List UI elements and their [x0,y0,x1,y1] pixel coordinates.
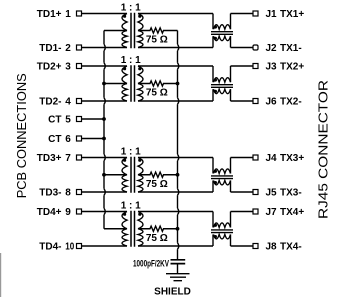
wire choke to J8 [231,245,254,247]
T3 secondary winding [138,158,143,193]
resistor R2 75 ohm [138,81,178,99]
L2 right vertical bottom [230,89,232,101]
svg-text:TD4+: TD4+ [37,207,62,218]
scan artifact line [0,253,1,297]
transformer T4 1:1 [121,201,143,247]
T2 secondary phase dot [138,67,141,70]
T1 secondary phase dot [138,15,141,18]
svg-text:TD1+: TD1+ [37,9,62,20]
L3 top winding [214,169,231,174]
J5 terminal square [253,190,258,195]
C1 plates [171,260,186,264]
svg-text:6: 6 [65,134,71,145]
svg-text:CT: CT [48,115,61,126]
resistor R1 75 ohm [138,28,178,46]
svg-text:TD2+: TD2+ [37,62,62,73]
svg-text:TX4+: TX4+ [280,207,304,218]
capacitor C1 1000pF/2KV [133,259,185,269]
pin 3 terminal square [77,64,82,69]
wire pin 5 [82,118,105,120]
L4 right vertical top [230,212,232,228]
L2 left vertical bottom [212,89,214,101]
svg-text:J3: J3 [266,62,278,73]
L2 right vertical top [230,66,232,82]
wire choke to J1 [231,13,254,15]
T4 core [131,211,135,247]
svg-text:TX4-: TX4- [280,242,302,253]
svg-text:J6: J6 [266,97,278,108]
svg-text:75 Ω: 75 Ω [146,35,168,46]
L3 bottom phase dot [214,181,217,184]
T4 secondary phase dot [138,213,141,216]
wire CT tap to T4 primary center tap [104,228,127,230]
L4 top winding [214,223,231,228]
common-mode choke L1 [211,14,233,48]
T2 primary phase dot [123,67,126,70]
T1 core [131,13,135,48]
resistor R4 75 ohm [138,226,178,244]
wire CT tap to T1 primary center tap [104,30,127,32]
svg-text:TX2-: TX2- [280,97,302,108]
common-mode choke L4 [211,212,233,247]
J3 terminal square [253,64,258,69]
junction Rbus/R4 [176,227,180,231]
svg-text:10: 10 [65,242,74,253]
svg-text:TD3-: TD3- [39,188,61,199]
svg-text:1 : 1: 1 : 1 [121,3,141,14]
svg-text:J1: J1 [266,9,278,20]
junction Rbus/R2 [176,82,180,86]
pin 7 terminal square [77,155,82,160]
T1 secondary winding [138,14,143,48]
L3 left vertical top [212,158,214,174]
svg-text:1 : 1: 1 : 1 [121,201,141,212]
svg-text:75 Ω: 75 Ω [146,179,168,190]
wire pin 6 [82,138,105,140]
svg-text:5: 5 [65,115,71,126]
wire CT tap to T2 primary center tap [104,83,127,85]
wire T3 secondary top rail [138,157,213,159]
svg-text:75 Ω: 75 Ω [146,233,168,244]
wire choke to J3 [231,65,254,67]
wire pin 4 [82,100,128,102]
transformer T1 1:1 [121,3,143,49]
junction Rbus/R3 [176,173,180,177]
svg-text:J8: J8 [266,242,278,253]
CT bus vertical net [104,31,105,229]
T3 primary phase dot [123,159,126,162]
L3 bottom winding [214,180,231,185]
J6 terminal square [253,99,258,104]
L3 right vertical bottom [230,180,232,192]
L4 core [211,230,233,233]
svg-text:CT: CT [48,134,61,145]
transformer T3 1:1 [121,147,143,193]
pin 8 terminal square [77,190,82,195]
J2 terminal square [253,45,258,50]
svg-text:3: 3 [65,62,71,73]
wire CT tap to T3 primary center tap [104,174,127,176]
junction CT/T3 [102,173,106,177]
T4 primary winding [122,212,127,247]
svg-text:J5: J5 [266,188,278,199]
pin 4 terminal square [77,99,82,104]
L2 top winding [214,78,231,83]
junction CT/pin5 [102,117,106,121]
J8 terminal square [253,244,258,249]
L3 top phase dot [214,170,217,173]
svg-text:4: 4 [65,97,71,108]
pin 6 terminal square [77,136,82,141]
L4 bottom phase dot [214,235,217,238]
L1 left vertical top [212,14,214,30]
T1 primary winding [122,14,127,48]
svg-text:SHIELD: SHIELD [154,287,191,298]
svg-text:J7: J7 [266,207,278,218]
L1 bottom winding [214,36,231,41]
L1 bottom phase dot [214,37,217,40]
wire pin 2 [82,47,128,49]
L2 bottom phase dot [214,90,217,93]
pin 2 terminal square [77,45,82,50]
common-mode choke L2 [211,66,233,101]
wire pin 10 [82,245,128,247]
T3 primary winding [122,158,127,193]
pin 10 terminal square [77,244,82,249]
wire pin 8 [82,191,128,193]
wire T3 secondary bottom rail [138,191,213,193]
svg-text:TX1+: TX1+ [280,9,304,20]
svg-text:8: 8 [65,188,71,199]
wire T1 secondary bottom rail [138,47,213,49]
wire choke to J2 [231,47,254,49]
pin 5 terminal square [77,117,82,122]
wire pin 7 [82,157,128,159]
L2 top phase dot [214,78,217,81]
wire T4 secondary bottom rail [138,245,213,247]
transformer T2 1:1 [121,55,143,101]
wire choke to J4 [231,157,254,159]
wire pin 1 [82,13,128,15]
svg-text:TX2+: TX2+ [280,62,304,73]
L1 left vertical bottom [212,36,214,47]
T1 primary phase dot [123,15,126,18]
L1 top winding [214,25,231,30]
ground symbol SHIELD [166,274,190,281]
common-mode choke L3 [211,158,233,193]
svg-text:J2: J2 [266,43,278,54]
svg-text:1: 1 [65,9,71,20]
wire pin 3 [82,65,128,67]
svg-text:J4: J4 [266,153,278,164]
svg-text:TX3-: TX3- [280,188,302,199]
junction CT/pin6 [102,137,106,141]
wire pin 9 [82,211,128,213]
svg-text:2: 2 [65,43,71,54]
L3 left vertical bottom [212,180,214,192]
J4 terminal square [253,155,258,160]
J7 terminal square [253,209,258,214]
T2 core [131,65,135,101]
wire choke to J5 [231,191,254,193]
L1 right vertical top [230,14,232,30]
svg-text:1 : 1: 1 : 1 [121,147,141,158]
L3 core [211,176,233,179]
svg-text:75 Ω: 75 Ω [146,88,168,99]
svg-text:TD1-: TD1- [39,43,61,54]
L3 right vertical top [230,158,232,174]
L2 bottom winding [214,89,231,94]
wire T2 secondary top rail [138,65,213,67]
svg-text:RJ45 CONNECTOR: RJ45 CONNECTOR [315,80,330,219]
wire C1 to ground [177,264,179,274]
svg-text:TD2-: TD2- [39,97,61,108]
svg-text:9: 9 [65,207,71,218]
T4 secondary winding [138,212,143,247]
svg-text:1000pF/2KV: 1000pF/2KV [133,259,169,269]
svg-text:TD3+: TD3+ [37,153,62,164]
svg-text:TX1-: TX1- [280,43,302,54]
wire T4 secondary top rail [138,211,213,213]
svg-text:TX3+: TX3+ [280,153,304,164]
junction CT/T2 [102,82,106,86]
T2 secondary winding [138,66,143,101]
J1 terminal square [253,11,258,16]
L1 right vertical bottom [230,36,232,47]
pin 9 terminal square [77,209,82,214]
T4 primary phase dot [123,213,126,216]
svg-text:7: 7 [65,153,71,164]
L2 left vertical top [212,66,214,82]
T2 primary winding [122,66,127,101]
L4 right vertical bottom [230,234,232,246]
T3 core [131,157,135,193]
resistor common bus net [178,31,179,260]
wire choke to J6 [231,100,254,102]
L2 core [211,85,233,88]
wire choke to J7 [231,211,254,213]
L4 bottom winding [214,234,231,239]
wire T2 secondary bottom rail [138,100,213,102]
svg-text:PCB CONNECTIONS: PCB CONNECTIONS [14,73,29,198]
L4 left vertical top [212,212,214,228]
L4 top phase dot [214,224,217,227]
T3 secondary phase dot [138,159,141,162]
svg-text:TD4-: TD4- [39,242,61,253]
wire T1 secondary top rail [138,13,213,15]
L1 core [211,32,233,35]
L4 left vertical bottom [212,234,214,246]
pin 1 terminal square [77,11,82,16]
svg-text:1 : 1: 1 : 1 [121,55,141,66]
resistor R3 75 ohm [138,172,178,190]
L1 top phase dot [214,25,217,28]
